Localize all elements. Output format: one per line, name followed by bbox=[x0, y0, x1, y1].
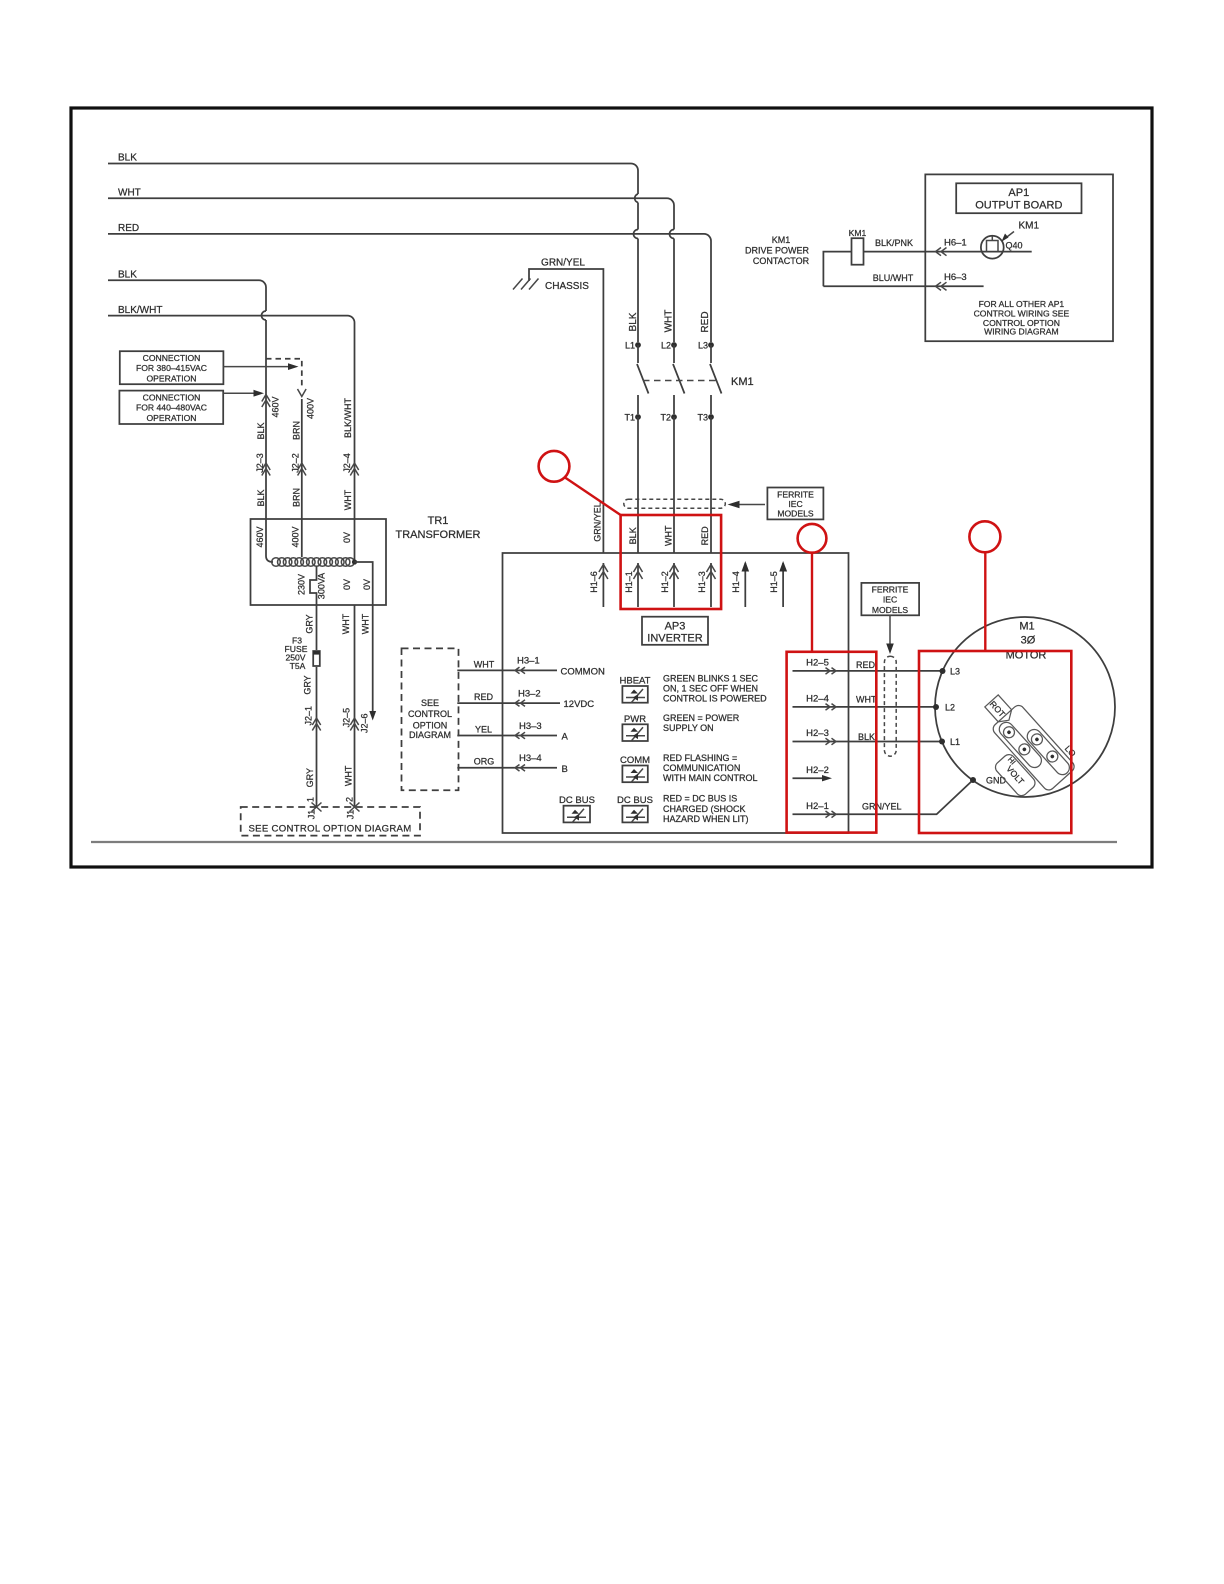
svg-text:WHT: WHT bbox=[344, 765, 354, 786]
svg-text:400V: 400V bbox=[306, 398, 316, 419]
svg-text:WHT: WHT bbox=[343, 489, 353, 510]
svg-text:2: 2 bbox=[345, 797, 355, 802]
svg-text:BLK: BLK bbox=[858, 732, 875, 742]
svg-text:12VDC: 12VDC bbox=[564, 699, 595, 710]
svg-text:T5A: T5A bbox=[290, 661, 306, 671]
wire GRY J2-1 bbox=[303, 667, 322, 819]
annotation circle 2 bbox=[798, 524, 827, 652]
svg-text:ON, 1 SEC OFF WHEN: ON, 1 SEC OFF WHEN bbox=[663, 684, 758, 694]
svg-text:COMM: COMM bbox=[620, 755, 650, 766]
svg-text:AP1: AP1 bbox=[1008, 187, 1029, 199]
svg-text:RED: RED bbox=[856, 660, 876, 670]
annotation rect H1 bbox=[621, 515, 722, 609]
node motor L3 bbox=[940, 667, 961, 677]
annotation circle 1 bbox=[539, 451, 621, 515]
svg-text:OPERATION: OPERATION bbox=[147, 374, 197, 384]
svg-text:FERRITE: FERRITE bbox=[777, 490, 814, 500]
svg-text:L1: L1 bbox=[625, 341, 635, 351]
svg-text:Q40: Q40 bbox=[1006, 241, 1023, 251]
wire T3 to inverter H1-3 bbox=[700, 417, 711, 553]
label GRN/YEL riser bbox=[593, 502, 603, 542]
svg-text:CONTROL IS POWERED: CONTROL IS POWERED bbox=[663, 694, 767, 704]
svg-text:GREEN BLINKS 1 SEC: GREEN BLINKS 1 SEC bbox=[663, 674, 759, 684]
ferrite bead (IEC models) input bbox=[624, 488, 824, 520]
motor M1 bbox=[935, 617, 1115, 797]
motor voltage plug bbox=[960, 681, 1085, 809]
svg-text:BLK/WHT: BLK/WHT bbox=[118, 305, 162, 316]
svg-text:L1: L1 bbox=[950, 737, 960, 747]
contactor KM1 poles bbox=[637, 345, 754, 414]
svg-text:BLU/WHT: BLU/WHT bbox=[873, 273, 914, 283]
svg-text:H1–2: H1–2 bbox=[660, 571, 670, 593]
LED legend text bbox=[663, 674, 767, 825]
AP1 output board bbox=[925, 174, 1113, 341]
svg-text:T2: T2 bbox=[660, 413, 671, 423]
svg-text:BLK: BLK bbox=[628, 312, 639, 331]
svg-text:KM1: KM1 bbox=[849, 228, 867, 238]
pin H2-4 WHT to motor L2 bbox=[793, 694, 937, 711]
pin H2-1 GRN/YEL to motor GND bbox=[793, 780, 974, 818]
wire 400V dashed tap bbox=[266, 359, 306, 397]
svg-text:RED: RED bbox=[118, 223, 139, 234]
svg-text:OUTPUT BOARD: OUTPUT BOARD bbox=[975, 200, 1062, 212]
wire BRN 400V bbox=[291, 398, 316, 557]
svg-text:FERRITE: FERRITE bbox=[872, 585, 909, 595]
see control option diagram box (bottom) bbox=[241, 807, 420, 836]
svg-text:J2–6: J2–6 bbox=[360, 713, 370, 733]
svg-text:3Ø: 3Ø bbox=[1021, 635, 1036, 647]
pin H1-5 bbox=[769, 561, 787, 607]
node 0V junction bbox=[342, 559, 373, 605]
svg-text:TRANSFORMER: TRANSFORMER bbox=[396, 529, 481, 541]
svg-text:0V: 0V bbox=[342, 579, 352, 590]
svg-text:COMMON: COMMON bbox=[561, 667, 605, 678]
svg-text:WHT: WHT bbox=[341, 613, 351, 634]
pin H1-6 bbox=[589, 563, 608, 607]
svg-text:RED = DC BUS IS: RED = DC BUS IS bbox=[663, 793, 737, 803]
wire WHT phase feeder bbox=[108, 188, 675, 343]
pin H1-2 bbox=[660, 563, 679, 607]
svg-text:GRY: GRY bbox=[305, 614, 315, 633]
pin H2-2 bbox=[793, 765, 833, 782]
svg-text:H3–3: H3–3 bbox=[519, 721, 542, 732]
svg-text:INVERTER: INVERTER bbox=[647, 633, 702, 645]
wire BLK/WHT transformer primary feeder bbox=[108, 305, 355, 562]
connection option box 440-480VAC bbox=[119, 390, 264, 424]
svg-text:BLK: BLK bbox=[118, 270, 137, 281]
wire RED phase feeder bbox=[108, 223, 711, 342]
svg-text:BLK: BLK bbox=[628, 527, 638, 544]
svg-text:H6–3: H6–3 bbox=[944, 272, 967, 283]
svg-text:MODELS: MODELS bbox=[777, 509, 814, 519]
svg-text:J2–3: J2–3 bbox=[255, 453, 265, 473]
svg-text:FOR 380–415VAC: FOR 380–415VAC bbox=[136, 363, 207, 373]
svg-text:OPERATION: OPERATION bbox=[147, 413, 197, 423]
indicator KM1 contact Q40 bbox=[981, 221, 1040, 259]
svg-text:L3: L3 bbox=[950, 667, 960, 677]
svg-text:BLK: BLK bbox=[256, 422, 266, 439]
svg-text:YEL: YEL bbox=[475, 725, 492, 735]
transformer 230V tap bbox=[297, 567, 327, 651]
svg-text:CONTROL: CONTROL bbox=[408, 709, 452, 719]
svg-text:H2–2: H2–2 bbox=[806, 765, 829, 776]
wire WHT J2-6 bbox=[360, 605, 377, 733]
svg-text:DC BUS: DC BUS bbox=[559, 795, 595, 806]
svg-text:H2–3: H2–3 bbox=[806, 728, 829, 739]
svg-text:H1–4: H1–4 bbox=[731, 571, 741, 593]
svg-text:AP3: AP3 bbox=[665, 621, 686, 633]
annotation circle 3 bbox=[969, 521, 1000, 651]
LED PWR bbox=[622, 714, 647, 742]
svg-text:H1–6: H1–6 bbox=[589, 571, 599, 593]
pin H3-2 12VDC bbox=[457, 689, 594, 711]
svg-text:CHARGED (SHOCK: CHARGED (SHOCK bbox=[663, 804, 746, 814]
annotation rect motor bbox=[919, 651, 1071, 833]
ferrite bead (IEC models) output bbox=[861, 583, 919, 756]
svg-text:M1: M1 bbox=[1019, 621, 1034, 633]
fuse F3 bbox=[285, 614, 320, 671]
node motor L1 bbox=[939, 737, 960, 747]
node motor GND bbox=[970, 776, 1007, 786]
node motor L2 bbox=[933, 703, 955, 713]
pin H3-4 B bbox=[457, 753, 568, 775]
svg-text:SEE CONTROL OPTION DIAGRAM: SEE CONTROL OPTION DIAGRAM bbox=[248, 824, 411, 835]
svg-text:B: B bbox=[562, 764, 568, 775]
svg-text:SEE: SEE bbox=[421, 698, 439, 708]
pin H3-3 A bbox=[457, 721, 568, 743]
connection option box 380-415VAC bbox=[120, 351, 299, 384]
node T1 bbox=[624, 413, 640, 423]
svg-text:COMMUNICATION: COMMUNICATION bbox=[663, 763, 740, 773]
wire BLU/WHT H6-3 bbox=[823, 272, 983, 290]
svg-text:BLK: BLK bbox=[118, 153, 137, 164]
svg-text:KM1: KM1 bbox=[772, 235, 791, 245]
svg-text:H1–3: H1–3 bbox=[697, 571, 707, 593]
pin H2-5 RED to motor L3 bbox=[793, 658, 943, 675]
svg-text:BRN: BRN bbox=[292, 421, 302, 440]
wire BLK/PNK H6-1 bbox=[823, 238, 1031, 287]
svg-text:H1–5: H1–5 bbox=[769, 571, 779, 593]
svg-text:DC BUS: DC BUS bbox=[617, 795, 653, 806]
LED DC BUS left bbox=[559, 795, 595, 823]
svg-text:H2–5: H2–5 bbox=[806, 658, 829, 669]
svg-text:IEC: IEC bbox=[883, 595, 897, 605]
node T3 bbox=[697, 413, 713, 423]
svg-text:IEC: IEC bbox=[788, 499, 802, 509]
svg-text:CONTROL WIRING SEE: CONTROL WIRING SEE bbox=[974, 308, 1070, 318]
svg-text:T1: T1 bbox=[624, 413, 635, 423]
pin H1-4 bbox=[731, 561, 749, 607]
svg-text:L3: L3 bbox=[698, 341, 708, 351]
svg-text:FOR 440–480VAC: FOR 440–480VAC bbox=[136, 403, 207, 413]
svg-text:J2–1: J2–1 bbox=[304, 706, 314, 726]
svg-text:OPTION: OPTION bbox=[413, 720, 448, 730]
svg-text:GRY: GRY bbox=[305, 768, 315, 787]
svg-text:460V: 460V bbox=[271, 396, 281, 417]
svg-text:PWR: PWR bbox=[624, 714, 646, 725]
svg-text:GRN/YEL: GRN/YEL bbox=[541, 258, 585, 269]
svg-text:H6–1: H6–1 bbox=[944, 238, 967, 249]
svg-text:0V: 0V bbox=[342, 532, 352, 543]
svg-text:WHT: WHT bbox=[361, 613, 371, 634]
svg-text:BLK/WHT: BLK/WHT bbox=[343, 398, 353, 439]
svg-text:400V: 400V bbox=[291, 526, 301, 547]
wire BLK transformer primary feeder bbox=[108, 270, 273, 563]
svg-text:TR1: TR1 bbox=[428, 515, 449, 527]
svg-text:1: 1 bbox=[306, 797, 316, 802]
svg-text:BLK: BLK bbox=[256, 489, 266, 506]
svg-text:T3: T3 bbox=[697, 413, 708, 423]
schematic bottom rule bbox=[91, 841, 1117, 843]
svg-text:GRN/YEL: GRN/YEL bbox=[862, 802, 902, 812]
border frame bbox=[71, 108, 1152, 867]
svg-text:GND: GND bbox=[986, 776, 1007, 786]
svg-text:J2–5: J2–5 bbox=[342, 708, 352, 728]
svg-text:RED: RED bbox=[474, 692, 494, 702]
pin H1-1 bbox=[624, 563, 643, 607]
svg-text:230V: 230V bbox=[297, 574, 307, 595]
svg-text:WITH MAIN CONTROL: WITH MAIN CONTROL bbox=[663, 773, 758, 783]
svg-text:H3–2: H3–2 bbox=[518, 689, 541, 700]
wire T1 to inverter H1-1 bbox=[628, 417, 638, 553]
svg-text:H3–4: H3–4 bbox=[519, 753, 542, 764]
svg-text:DRIVE POWER: DRIVE POWER bbox=[745, 246, 810, 256]
LED HBEAT bbox=[620, 676, 651, 704]
node L2 bbox=[661, 341, 677, 351]
wire T2 to inverter H1-2 bbox=[664, 417, 675, 553]
wire BLK phase feeder bbox=[108, 153, 639, 343]
contactor coil KM1 bbox=[745, 228, 867, 266]
svg-text:GRY: GRY bbox=[303, 675, 313, 694]
svg-text:WHT: WHT bbox=[474, 660, 495, 670]
svg-text:300VA: 300VA bbox=[317, 573, 327, 599]
svg-text:460V: 460V bbox=[255, 526, 265, 547]
inverter AP3 bbox=[503, 553, 849, 833]
svg-text:H2–4: H2–4 bbox=[806, 694, 829, 705]
svg-text:CONNECTION: CONNECTION bbox=[143, 353, 201, 363]
node L1 bbox=[625, 341, 641, 351]
svg-text:MODELS: MODELS bbox=[872, 605, 909, 615]
pin H2-3 BLK to motor L1 bbox=[793, 728, 943, 745]
svg-text:DIAGRAM: DIAGRAM bbox=[409, 730, 451, 740]
pin H3-1 COMMON bbox=[457, 656, 605, 678]
svg-text:CONNECTION: CONNECTION bbox=[143, 392, 201, 402]
svg-text:HBEAT: HBEAT bbox=[620, 676, 651, 687]
svg-text:RED: RED bbox=[700, 311, 711, 332]
svg-text:J2–4: J2–4 bbox=[342, 453, 352, 473]
svg-text:GRN/YEL: GRN/YEL bbox=[593, 502, 603, 542]
LED DC BUS right bbox=[617, 795, 653, 823]
svg-text:WHT: WHT bbox=[856, 694, 877, 704]
svg-text:WIRING DIAGRAM: WIRING DIAGRAM bbox=[984, 327, 1058, 337]
connector J2-4 bbox=[342, 398, 359, 511]
svg-text:L2: L2 bbox=[661, 341, 671, 351]
svg-text:H3–1: H3–1 bbox=[517, 656, 540, 667]
svg-text:H2–1: H2–1 bbox=[806, 801, 829, 812]
LED COMM bbox=[620, 755, 650, 783]
svg-text:RED: RED bbox=[700, 526, 710, 546]
node L3 bbox=[698, 341, 714, 351]
svg-text:L2: L2 bbox=[945, 703, 955, 713]
svg-text:WHT: WHT bbox=[664, 525, 674, 546]
annotation rect H2 bbox=[787, 652, 877, 833]
svg-text:ORG: ORG bbox=[474, 757, 495, 767]
pin H1-3 bbox=[697, 563, 716, 607]
node T2 bbox=[660, 413, 676, 423]
svg-text:RED FLASHING =: RED FLASHING = bbox=[663, 753, 737, 763]
transformer TR1 bbox=[251, 515, 481, 605]
node GRN/YEL chassis ground bbox=[513, 258, 603, 554]
svg-text:J2–2: J2–2 bbox=[291, 453, 301, 473]
svg-text:KM1: KM1 bbox=[731, 376, 754, 388]
svg-text:KM1: KM1 bbox=[1019, 221, 1040, 232]
see control option diagram box (right) bbox=[402, 648, 459, 790]
connector J2-3 bbox=[255, 395, 281, 507]
svg-text:WHT: WHT bbox=[664, 310, 675, 333]
transformer TR1 winding bbox=[272, 558, 355, 567]
svg-text:0V: 0V bbox=[362, 579, 372, 590]
svg-text:HAZARD WHEN LIT): HAZARD WHEN LIT) bbox=[663, 814, 749, 824]
svg-text:H1–1: H1–1 bbox=[624, 571, 634, 593]
svg-text:BLK/PNK: BLK/PNK bbox=[875, 238, 913, 248]
svg-text:CHASSIS: CHASSIS bbox=[545, 281, 589, 292]
svg-text:CONTACTOR: CONTACTOR bbox=[753, 256, 810, 266]
svg-text:SUPPLY ON: SUPPLY ON bbox=[663, 723, 714, 733]
wire WHT J2-5 bbox=[341, 605, 360, 819]
svg-text:WHT: WHT bbox=[118, 188, 141, 199]
svg-text:BRN: BRN bbox=[292, 488, 302, 507]
svg-text:A: A bbox=[562, 732, 569, 743]
svg-text:GREEN = POWER: GREEN = POWER bbox=[663, 713, 740, 723]
